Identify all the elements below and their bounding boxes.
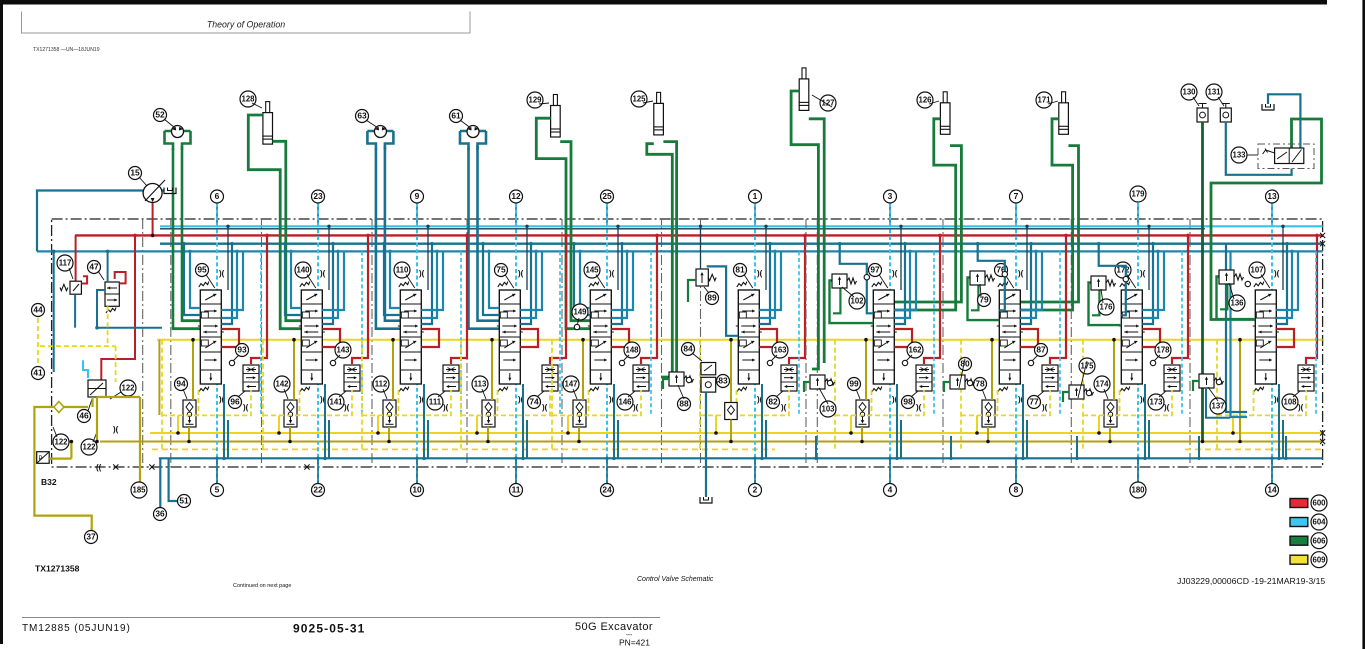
teal 117 return (74, 294, 76, 327)
blue drop C 97 (894, 251, 916, 310)
relief 137 teal drain (1206, 388, 1230, 418)
section divider x=467 (466, 219, 468, 467)
relief 136 green link (1217, 277, 1256, 320)
teal drop L1 145 (574, 244, 590, 315)
yellow dashed stub 97 (871, 390, 873, 415)
spool 110 pilot drop (427, 226, 429, 290)
teal tank drop2 140 (328, 420, 330, 458)
valve 83 (701, 377, 716, 392)
svg-text:83: 83 (718, 376, 728, 386)
motor 61 work lines (467, 148, 470, 330)
teal tank drop2 97 (900, 420, 902, 458)
svg-text:172: 172 (1116, 266, 1130, 275)
svg-text:)(: )( (1140, 269, 1146, 278)
blue drop C 110 (421, 251, 443, 310)
red supply U 172 (1142, 329, 1160, 347)
red drop to check 96 (251, 235, 267, 364)
relief 79 green elbow (971, 284, 978, 311)
callout 7 (1010, 190, 1023, 203)
callout 163 (772, 342, 788, 358)
svg-text:128: 128 (241, 95, 255, 104)
teal tank drop 76 (1022, 384, 1024, 458)
svg-text:113: 113 (474, 380, 487, 389)
spool valve 75 (497, 290, 523, 384)
blue drop C 172 (1142, 251, 1164, 310)
B32 riser (70, 442, 72, 459)
teal tank drop2 110 (427, 420, 429, 458)
section divider x=562 (561, 219, 563, 467)
check valve 141 (344, 365, 360, 391)
svg-text:50G Excavator: 50G Excavator (575, 621, 653, 633)
valve 47 red hook (115, 272, 126, 283)
motor 52 symbol (172, 126, 184, 138)
callout 78 (974, 378, 987, 391)
svg-text:63: 63 (357, 111, 367, 121)
pilot ball 178 (1150, 360, 1155, 365)
svg-text:9: 9 (415, 191, 420, 201)
page left black edge (0, 0, 3, 644)
relief 136 green elbow (1220, 283, 1227, 310)
page right black edge (1362, 0, 1365, 649)
callout 129 (527, 92, 543, 108)
callout 25 (601, 190, 614, 203)
pilot tank leader 24 (606, 458, 608, 483)
red supply U 140 (322, 329, 340, 347)
blue drop C 145 (611, 251, 633, 310)
olive feed 94 (192, 340, 194, 400)
svg-text:10: 10 (412, 485, 422, 495)
svg-text:61: 61 (451, 111, 461, 121)
callout 146 (617, 394, 633, 410)
svg-text:147: 147 (564, 380, 577, 389)
red supply U 76 (1020, 329, 1038, 347)
teal tank drop 172 (1144, 384, 1146, 458)
spool 107 top spring (1254, 282, 1264, 287)
check valve 108 (1298, 365, 1314, 391)
callout 87 (1035, 344, 1048, 357)
motor 61 bracket (460, 131, 486, 150)
callout 82 (767, 396, 780, 409)
valve 117 (70, 281, 81, 294)
teal tank drop2 81 (765, 420, 767, 458)
blue drop C 140 (322, 251, 344, 310)
spool valve 97 (871, 290, 897, 384)
relief 176 teal loop (1099, 244, 1126, 316)
cylinder 129 line B (560, 142, 590, 321)
svg-text:79: 79 (979, 295, 989, 305)
svg-text:137: 137 (1211, 402, 1224, 411)
svg-text:47: 47 (89, 262, 99, 272)
svg-text:P: P (39, 456, 43, 462)
callout 600 (1311, 495, 1327, 511)
relief 103 ball (827, 380, 832, 385)
relief 137 green elbow (1193, 381, 1199, 391)
cylinder 129 line A (536, 118, 590, 329)
shuttle valve 112 (383, 400, 396, 427)
callout 110 (394, 262, 410, 278)
callout 22 (312, 484, 325, 497)
red drop to check 173 (1172, 235, 1188, 364)
motor 52 line B into spool (182, 319, 200, 322)
cyan sub pilot 76 (1059, 251, 1061, 415)
relief 89 green elbow (688, 280, 696, 302)
teal tank drop2 172 (1148, 420, 1150, 458)
svg-text:)(: )( (113, 425, 119, 434)
teal drop L1 140 (285, 244, 301, 315)
svg-text:82: 82 (768, 397, 778, 407)
blue drop B 76 (1020, 251, 1036, 318)
spool 81 bottom spring (737, 387, 747, 392)
callout 113 (472, 376, 488, 392)
pressure switch 130 (1197, 104, 1208, 123)
pilot tank leader 2 (754, 458, 756, 483)
yellow dashed 44-41 (37, 318, 39, 366)
callout 83 (717, 375, 730, 388)
shuttle valve 113 (482, 400, 495, 427)
svg-text:24: 24 (602, 485, 612, 495)
svg-text:93: 93 (237, 345, 247, 355)
check valve 82 (781, 365, 797, 391)
relief valve 103 (810, 375, 835, 389)
svg-text:11: 11 (512, 485, 521, 495)
spool 107 bottom spring (1254, 387, 1264, 392)
callout 173 (1148, 394, 1164, 410)
gauge 15 red feed (152, 202, 154, 235)
callout 46 (78, 410, 91, 423)
svg-text:Control Valve Schematic: Control Valve Schematic (637, 576, 714, 583)
pilot tank leader 14 (1271, 458, 1273, 483)
cyan sub pilot 107 (1315, 251, 1317, 415)
pilot tank leader 4 (889, 458, 891, 483)
pilot tank leader 10 (416, 458, 418, 483)
olive feed 142 (293, 340, 295, 400)
yellow dashed stub 110 (398, 390, 400, 415)
cyan sub pilot 140 (361, 251, 363, 415)
olive drain 147 (578, 427, 580, 442)
cylinder 125 body (657, 92, 661, 104)
spool valve 145 (588, 290, 614, 384)
blue drop C 107 (1276, 251, 1298, 310)
yellow riser 95 (177, 415, 179, 433)
relief 102 green elbow (833, 287, 840, 314)
yellow dashed left bus (40, 345, 116, 347)
svg-text:142: 142 (275, 380, 289, 389)
callout 125 (631, 91, 647, 107)
callout 96 (229, 396, 242, 409)
spool valve 81 (736, 290, 762, 384)
svg-text:88: 88 (679, 399, 689, 409)
callout 13 (1266, 190, 1279, 203)
spool 97 top spring (872, 282, 882, 287)
olive drain section F (730, 420, 732, 442)
blue drop B 172 (1142, 251, 1158, 318)
callout 122 (53, 434, 69, 450)
check valve 77 (1042, 365, 1058, 391)
relief 79 pilot ball (1002, 272, 1007, 277)
section divider x=817.3 (816, 219, 818, 467)
teal drop A 95 (221, 244, 232, 324)
relief valve 80 (950, 375, 975, 389)
relief 136 pilot ball (1245, 281, 1250, 286)
border crossing mark (113, 464, 118, 469)
svg-text:609: 609 (1312, 555, 1326, 564)
svg-text:96: 96 (230, 397, 240, 407)
svg-text:2: 2 (753, 485, 758, 495)
callout 99 (848, 378, 861, 391)
svg-text:B32: B32 (41, 477, 57, 487)
svg-text:44: 44 (33, 305, 43, 315)
svg-text:23: 23 (313, 191, 323, 201)
cylinder 127 line A (791, 91, 818, 369)
spool 110 bottom spring (399, 387, 409, 392)
shuttle valve 78 (982, 400, 995, 427)
section 81: pilot line 1/2 (754, 203, 756, 226)
yellow supply path B32 (34, 407, 91, 531)
yellow pilot box 140 (262, 340, 264, 450)
callout 126 (917, 92, 933, 108)
red supply U 107 (1276, 329, 1294, 347)
blue drop B 107 (1276, 251, 1292, 318)
svg-text:604: 604 (1312, 518, 1326, 527)
red drop to check 74 (550, 235, 566, 364)
svg-text:)(: )( (1298, 403, 1304, 412)
callout 4 (884, 484, 897, 497)
cylinder 127 line B (809, 119, 824, 363)
callout 122 (120, 380, 136, 396)
cylinder 129 body (553, 95, 557, 107)
svg-text:127: 127 (821, 99, 834, 108)
callout 47 (88, 261, 101, 274)
callout 143 (335, 342, 351, 358)
yellow riser 75 (476, 415, 478, 433)
teal tank drop2 95 (227, 420, 229, 458)
svg-text:6: 6 (215, 191, 220, 201)
svg-text:)(: )( (633, 403, 639, 412)
left teal branch (53, 251, 55, 372)
header box (22, 12, 471, 34)
blue bus 604 (37, 250, 1323, 252)
yellow dashed stub 107 (1253, 390, 1255, 415)
spool 140 top spring (300, 282, 310, 287)
section divider x=1190 (1189, 219, 1191, 467)
callout 12 (510, 190, 523, 203)
callout 185 (131, 482, 147, 498)
valve 133 lever (1263, 149, 1275, 155)
relief 88 ball (686, 377, 691, 382)
teal drain to tank 2 (705, 392, 707, 497)
svg-text:)(: )( (243, 403, 249, 412)
svg-text:122: 122 (121, 384, 135, 393)
pilot ball 163 (767, 360, 772, 365)
callout 15 (129, 167, 142, 180)
blue drop B 145 (611, 251, 627, 318)
svg-text:51: 51 (179, 496, 189, 506)
section divider x=943 (942, 219, 944, 467)
svg-text:TM12885 (05JUN19): TM12885 (05JUN19) (22, 623, 131, 634)
svg-text:37: 37 (86, 532, 96, 542)
teal drop A 76 (1020, 244, 1031, 324)
olive drain 142 (289, 427, 291, 442)
callout 174 (1094, 376, 1110, 392)
yellow pilot box 110 (361, 340, 363, 450)
callout 5 (211, 484, 224, 497)
olive drain 113 (487, 427, 489, 442)
page top black bar (0, 0, 1327, 5)
legend swatch 609 (1290, 555, 1308, 564)
svg-text:TX1271358: TX1271358 (35, 564, 80, 574)
callout 127 (820, 95, 836, 111)
olive drain 99 (861, 427, 863, 442)
pilot ball 148 (619, 360, 624, 365)
red pressure bus 600 (75, 234, 1323, 236)
svg-text:)(: )( (916, 403, 922, 412)
relief 102 pilot ball (864, 275, 869, 280)
teal drop L1 110 (384, 244, 400, 315)
relief 176 green link (1089, 283, 1122, 326)
cyan sub pilot 145 (650, 251, 652, 415)
motor 63 work lines (375, 148, 378, 330)
svg-text:)(: )( (1274, 269, 1280, 278)
spool 95 bottom spring (199, 387, 209, 392)
B32 yellow lead (49, 458, 71, 460)
yellow dashed stub 172 (1119, 390, 1121, 415)
svg-text:PN=421: PN=421 (619, 638, 650, 648)
pilot ball 143 (330, 360, 335, 365)
blue drop B 140 (322, 251, 338, 318)
teal tank drop 75 (522, 384, 524, 458)
spool 97 pilot drop (900, 226, 902, 290)
motor 63 line B into spool (385, 319, 400, 322)
svg-text:110: 110 (396, 266, 409, 275)
svg-text:52: 52 (155, 110, 165, 120)
pilot ball 149 (574, 324, 579, 329)
section divider x=170.8 (170, 219, 172, 467)
callout 97 (869, 264, 882, 277)
shuttle valve 142 (284, 400, 297, 427)
svg-text:94: 94 (176, 379, 186, 389)
yellow pilot box 76 (960, 340, 962, 450)
svg-text:143: 143 (336, 346, 350, 355)
cylinder 126 body (943, 92, 947, 104)
yellow return bus (150, 432, 1323, 434)
border crossing mark (1320, 430, 1325, 435)
red supply U 97 (894, 329, 912, 347)
teal drop L1 95 (184, 244, 200, 315)
section divider x=261.5 (261, 219, 263, 467)
callout 10 (411, 484, 424, 497)
svg-text:129: 129 (528, 96, 542, 105)
svg-text:131: 131 (1207, 88, 1221, 97)
relief 103 green elbow (804, 382, 810, 392)
svg-text:175: 175 (1080, 362, 1094, 371)
section 140: pilot line 23/22 (317, 203, 319, 226)
callout 175 (1079, 358, 1095, 374)
J blue bus drop (1231, 251, 1248, 417)
valve 47 (105, 282, 119, 306)
spool 95 top spring (199, 282, 209, 287)
section 76: pilot line 7/8 (1015, 203, 1017, 226)
callout 148 (624, 342, 640, 358)
callout 11 (510, 484, 523, 497)
svg-text:125: 125 (632, 95, 646, 104)
section 145: pilot line 25/24 (606, 203, 608, 226)
callout 140 (295, 262, 311, 278)
svg-text:174: 174 (1095, 380, 1109, 389)
valve 133 body (1275, 148, 1304, 164)
cyan pilot bus (160, 225, 1323, 227)
svg-text:102: 102 (850, 297, 864, 306)
red supply U 81 (759, 329, 777, 347)
relief 79 teal loop (978, 244, 1005, 311)
svg-text:1: 1 (753, 191, 758, 201)
spool valve 107 (1253, 290, 1279, 384)
relief valve 102 (832, 274, 857, 288)
callout 14 (1266, 484, 1279, 497)
check valve 96 (243, 365, 259, 391)
red drop to check 146 (641, 235, 657, 364)
teal drop A 75 (520, 244, 531, 324)
callout 76 (995, 264, 1008, 277)
callout 609 (1311, 552, 1327, 568)
yellow dashed to 46 (115, 346, 117, 382)
teal drain stub x=816 (815, 436, 817, 458)
callout 103 (820, 401, 836, 417)
legend swatch 606 (1290, 536, 1308, 545)
motor 61 symbol (467, 126, 479, 138)
svg-text:4: 4 (888, 485, 893, 495)
blue drop B 95 (221, 251, 237, 318)
relief 176 green elbow (1092, 289, 1099, 316)
motor 61 line A into spool (469, 327, 500, 330)
dashed yellow pilot-drain bus (152, 448, 775, 450)
svg-text:130: 130 (1182, 88, 1196, 97)
cylinder 128 line B (273, 141, 301, 320)
relief 79 green link (968, 278, 1000, 321)
yellow riser 140 (278, 415, 280, 433)
border crossing mark (149, 464, 154, 469)
spool 76 top spring (998, 282, 1008, 287)
section divider x=372 (371, 219, 373, 467)
spool 75 top spring (498, 282, 508, 287)
teal drop L1 75 (483, 244, 499, 315)
cylinder 171 body (1062, 92, 1066, 104)
teal drop A 110 (421, 244, 432, 324)
teal drain stub x=1077 (1076, 436, 1078, 458)
teal tank drop2 145 (617, 420, 619, 458)
teal drain stub x=1199 (1198, 436, 1200, 458)
red drop to check 111 (451, 235, 467, 364)
svg-text:180: 180 (1131, 486, 1145, 495)
teal line to 51 (169, 458, 178, 501)
svg-text:)(: )( (518, 269, 524, 278)
yellow pilot box 81 (699, 340, 701, 450)
callout 142 (274, 376, 290, 392)
tank bracket bottom (700, 497, 712, 503)
tank bracket top right (1262, 104, 1274, 110)
legend swatch 604 (1290, 518, 1308, 527)
motor 63 bracket (367, 131, 393, 150)
svg-text:)(: )( (1042, 403, 1048, 412)
olive 46-185 link (97, 396, 140, 398)
pilot tank leader 5 (216, 458, 218, 483)
motor 52 work lines (172, 148, 175, 330)
schematic outer dash-dot border (52, 219, 1323, 467)
relief 80 ball (967, 380, 972, 385)
svg-text:Continued on next page: Continued on next page (233, 583, 291, 589)
teal bus upper (160, 242, 1323, 244)
olive drain 174 (1109, 427, 1111, 442)
svg-text:103: 103 (821, 405, 835, 414)
